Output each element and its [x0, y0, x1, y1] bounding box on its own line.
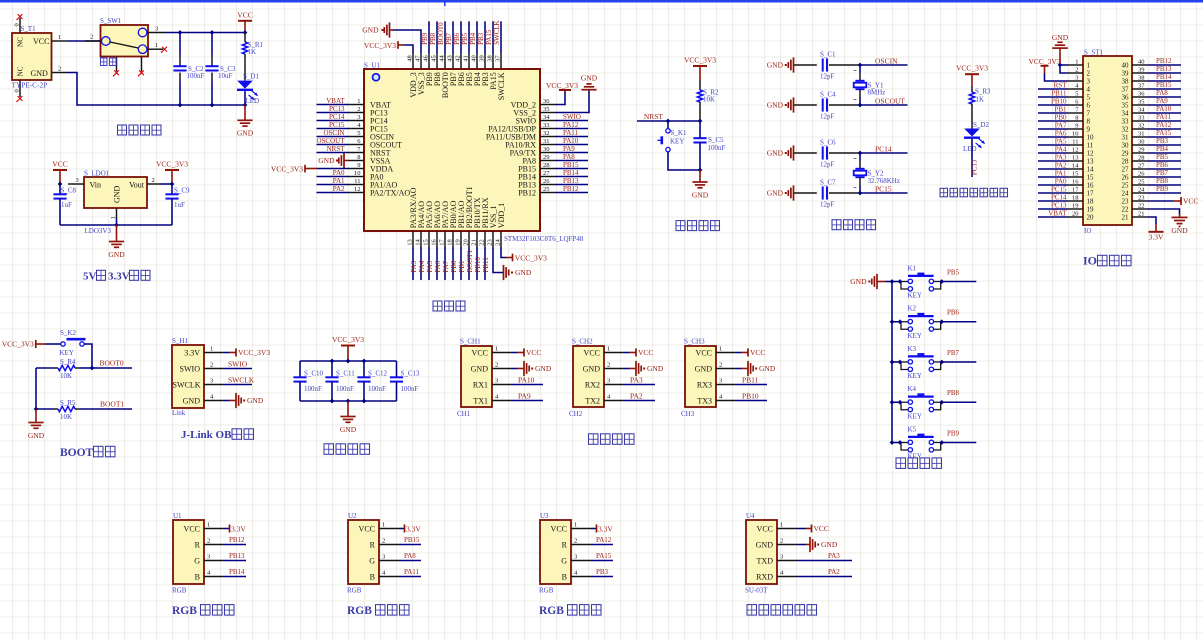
- svg-text:PB12: PB12: [229, 536, 245, 544]
- svg-text:PA12: PA12: [563, 121, 579, 129]
- power flag VCC_3V3 reset: [684, 56, 716, 81]
- wires and net labels left of header: [1038, 81, 1068, 217]
- svg-text:39: 39: [1122, 70, 1130, 78]
- key K1: [890, 264, 944, 299]
- svg-text:LDO3V3: LDO3V3: [85, 227, 112, 235]
- svg-text:PB1: PB1: [458, 260, 466, 273]
- svg-text:39: 39: [478, 55, 485, 62]
- svg-text:33: 33: [1122, 118, 1130, 126]
- svg-text:15: 15: [1087, 174, 1095, 182]
- ground GND U4: [797, 537, 838, 552]
- svg-text:25: 25: [543, 186, 550, 193]
- svg-text:10K: 10K: [60, 372, 72, 380]
- svg-text:U2: U2: [348, 512, 357, 520]
- wire switch to VCC rail: [165, 32, 245, 34]
- capacitor S_C2 100nF: [173, 33, 204, 106]
- svg-text:PA5: PA5: [426, 260, 434, 272]
- svg-text:40: 40: [470, 55, 477, 62]
- wire PA3 net: [797, 552, 852, 561]
- svg-text:GND: GND: [695, 364, 713, 373]
- svg-text:RX3: RX3: [697, 380, 712, 389]
- capacitor S_C5 100nF: [693, 121, 725, 170]
- svg-text:25: 25: [1122, 182, 1130, 190]
- svg-text:8: 8: [1075, 115, 1078, 122]
- title crystal circuit: [832, 220, 876, 230]
- svg-text:PA0: PA0: [333, 169, 345, 177]
- title 5V to 3.3V circuit: [83, 270, 150, 282]
- title IO expansion port: [1083, 254, 1131, 268]
- svg-text:GND: GND: [515, 268, 532, 277]
- svg-text:22: 22: [1138, 203, 1145, 210]
- svg-text:PB0: PB0: [1054, 113, 1067, 121]
- svg-text:PA9: PA9: [1156, 97, 1168, 105]
- wire boot pulldown rail: [34, 368, 39, 411]
- svg-text:26: 26: [543, 178, 550, 185]
- svg-text:PA0: PA0: [1055, 177, 1067, 185]
- svg-text:20: 20: [462, 239, 469, 246]
- svg-text:PA7: PA7: [1055, 121, 1067, 129]
- svg-text:GND: GND: [183, 396, 201, 405]
- svg-text:S_C6: S_C6: [820, 139, 836, 147]
- capacitor S_C4 12pF: [767, 91, 860, 121]
- header S_H1 J-Link: [172, 337, 224, 417]
- svg-text:46: 46: [422, 55, 429, 62]
- wire PA8 net: [399, 552, 421, 561]
- svg-text:PA2: PA2: [333, 185, 345, 193]
- svg-text:1: 1: [780, 521, 783, 528]
- svg-text:S_K1: S_K1: [671, 129, 687, 137]
- svg-text:VCC_3V3: VCC_3V3: [956, 64, 988, 73]
- svg-text:33: 33: [1138, 115, 1145, 122]
- regulator S_LDO1 LDO3V3: [68, 169, 160, 235]
- svg-text:21: 21: [1122, 214, 1130, 222]
- svg-text:S_C10: S_C10: [304, 370, 324, 378]
- svg-text:3: 3: [155, 25, 158, 32]
- svg-text:PB4: PB4: [469, 32, 477, 45]
- svg-text:12pF: 12pF: [820, 201, 835, 209]
- svg-text:2: 2: [495, 361, 498, 368]
- capacitor S_C10 100nF: [293, 361, 323, 401]
- power flag 3.3V U2: [399, 524, 421, 533]
- svg-text:10K: 10K: [60, 413, 72, 421]
- svg-text:VCC: VCC: [472, 348, 488, 357]
- svg-text:RGB: RGB: [347, 605, 372, 617]
- crystal S_Y2 32.768KHz: [854, 153, 900, 193]
- wire PB8 net: [942, 389, 977, 402]
- svg-text:G: G: [369, 556, 375, 565]
- title module U1: [172, 605, 234, 618]
- svg-text:PB12: PB12: [1156, 57, 1172, 65]
- wire PA2 net: [624, 392, 655, 401]
- svg-text:B: B: [562, 572, 567, 581]
- svg-text:1: 1: [719, 345, 722, 352]
- svg-text:8: 8: [357, 154, 360, 161]
- svg-text:PB10: PB10: [1051, 97, 1067, 105]
- svg-text:PA7: PA7: [442, 260, 450, 272]
- svg-text:33: 33: [543, 122, 550, 129]
- svg-text:GND: GND: [767, 101, 784, 110]
- wires and net labels left of mcu: [316, 97, 348, 193]
- capacitor S_C1 12pF: [767, 51, 860, 81]
- power flag VCC_3V3 jlink: [224, 348, 270, 357]
- svg-text:R: R: [562, 540, 568, 549]
- svg-text:11: 11: [1087, 142, 1094, 150]
- svg-text:VCC: VCC: [584, 348, 600, 357]
- module U2 header: [347, 512, 399, 594]
- svg-text:PA11: PA11: [1156, 113, 1172, 121]
- svg-text:3.3V: 3.3V: [108, 271, 130, 283]
- svg-text:VCC_3V3: VCC_3V3: [238, 348, 270, 357]
- title module U2: [347, 605, 409, 618]
- svg-text:PC14: PC14: [329, 113, 345, 121]
- svg-text:PB3: PB3: [477, 32, 485, 45]
- svg-text:26: 26: [1122, 174, 1130, 182]
- svg-text:NRST: NRST: [327, 145, 346, 153]
- title power circuit: [118, 125, 162, 135]
- svg-text:PA15: PA15: [596, 552, 612, 560]
- svg-text:BOOT0: BOOT0: [100, 359, 124, 368]
- svg-text:K3: K3: [908, 345, 917, 353]
- title reset circuit: [676, 221, 720, 231]
- svg-text:14: 14: [1072, 163, 1079, 170]
- svg-text:PA11: PA11: [563, 129, 579, 137]
- power flag VCC U4: [797, 524, 829, 533]
- svg-text:RGB: RGB: [347, 586, 362, 594]
- svg-text:VBAT: VBAT: [326, 97, 345, 105]
- svg-text:12: 12: [1072, 147, 1079, 154]
- svg-text:VCC: VCC: [696, 348, 712, 357]
- svg-text:16: 16: [430, 239, 437, 246]
- svg-text:VCC: VCC: [1183, 197, 1198, 206]
- title module U4: [747, 605, 817, 616]
- svg-text:PB14: PB14: [563, 169, 579, 177]
- svg-text:GND: GND: [340, 425, 357, 434]
- svg-text:B: B: [195, 572, 200, 581]
- power flag VCC_3V3 at VDD_1: [501, 247, 547, 262]
- svg-text:30: 30: [1138, 139, 1145, 146]
- svg-text:PB14: PB14: [229, 568, 245, 576]
- svg-text:3.3V: 3.3V: [598, 524, 613, 533]
- svg-text:37: 37: [1122, 86, 1130, 94]
- title J-Link OB interface: [181, 429, 254, 441]
- power flag VCC_3V3 at LDO output: [156, 160, 188, 185]
- wires and net labels right of mcu: [556, 113, 588, 193]
- svg-text:35: 35: [1122, 102, 1130, 110]
- svg-text:SWIO: SWIO: [180, 364, 201, 373]
- svg-text:3.3V: 3.3V: [184, 348, 200, 357]
- svg-text:PB9: PB9: [947, 429, 960, 437]
- svg-text:16: 16: [1072, 179, 1079, 186]
- svg-text:29: 29: [1138, 147, 1145, 154]
- svg-text:2: 2: [382, 537, 385, 544]
- svg-text:3: 3: [574, 553, 577, 560]
- svg-text:GND: GND: [1052, 33, 1069, 42]
- power flag VCC_3V3 boot: [2, 340, 45, 349]
- svg-text:3: 3: [357, 114, 360, 121]
- svg-text:S_CH3: S_CH3: [684, 337, 705, 345]
- power flag VCC at LDO input: [52, 160, 67, 185]
- svg-text:K1: K1: [908, 264, 917, 272]
- svg-text:SWIO: SWIO: [563, 113, 581, 121]
- svg-text:PB6: PB6: [947, 309, 960, 317]
- wire PA9 net: [512, 392, 543, 401]
- svg-text:U3: U3: [540, 512, 549, 520]
- svg-text:GND: GND: [692, 190, 709, 199]
- svg-text:20: 20: [1072, 211, 1079, 218]
- resistor S_R4 10K: [36, 358, 92, 380]
- svg-text:IO: IO: [1084, 227, 1091, 235]
- svg-text:KEY: KEY: [908, 412, 922, 420]
- svg-text:3: 3: [210, 377, 213, 384]
- svg-text:OSCOUT: OSCOUT: [875, 96, 905, 105]
- svg-text:VCC: VCC: [52, 160, 67, 169]
- svg-text:KEY: KEY: [908, 292, 922, 300]
- svg-text:PA2: PA2: [1055, 161, 1067, 169]
- wire T1 GND to bottom rail: [67, 73, 245, 106]
- svg-text:100nF: 100nF: [187, 72, 205, 80]
- svg-text:BOOT1: BOOT1: [100, 400, 124, 409]
- svg-text:38: 38: [1122, 78, 1130, 86]
- svg-text:S_R5: S_R5: [60, 399, 76, 407]
- ground GND LDO: [108, 225, 125, 259]
- svg-text:PB13: PB13: [229, 552, 245, 560]
- wire PB13 net: [224, 552, 246, 561]
- svg-text:STM32F103C8T6_LQFP48: STM32F103C8T6_LQFP48: [504, 235, 584, 243]
- svg-text:BOOT1: BOOT1: [466, 250, 474, 273]
- svg-text:PB11: PB11: [482, 257, 490, 273]
- resistor S_R1 1K: [242, 33, 263, 81]
- power flag 3.3V U3: [591, 524, 613, 533]
- svg-text:3: 3: [76, 177, 79, 184]
- svg-text:25: 25: [1138, 179, 1145, 186]
- svg-text:S_SW1: S_SW1: [100, 17, 122, 25]
- LED S_D1: [237, 73, 259, 105]
- wire PA2 net: [797, 568, 852, 577]
- wire PA11 net: [399, 568, 421, 577]
- capacitor S_C3 10uF: [205, 33, 236, 106]
- svg-text:SWCLK: SWCLK: [173, 380, 201, 389]
- svg-text:PA10: PA10: [1156, 105, 1172, 113]
- svg-text:2: 2: [58, 65, 61, 72]
- svg-text:VCC_3V3: VCC_3V3: [684, 56, 716, 65]
- svg-text:SWCLK: SWCLK: [493, 20, 501, 45]
- svg-text:VCC_3V3: VCC_3V3: [364, 41, 396, 50]
- svg-text:PB8: PB8: [429, 32, 437, 45]
- svg-text:TX2: TX2: [585, 396, 600, 405]
- svg-text:VCC: VCC: [757, 524, 773, 533]
- svg-text:VCC_3V3: VCC_3V3: [332, 335, 364, 344]
- ground GND at VSS_1: [493, 247, 532, 280]
- power flag VCC_3V3 header: [1028, 57, 1068, 81]
- svg-text:47: 47: [414, 55, 421, 62]
- svg-text:PA3: PA3: [630, 376, 643, 385]
- wire PA3 net: [624, 376, 655, 385]
- ground GND S_CH3: [736, 361, 776, 376]
- svg-text:GND: GND: [821, 540, 838, 549]
- header S_ST1 IO: [1068, 49, 1148, 235]
- svg-text:PA8: PA8: [563, 153, 575, 161]
- power flag VCC: [237, 10, 252, 32]
- resistor S_R5 10K: [36, 399, 80, 421]
- svg-text:17: 17: [438, 239, 445, 246]
- svg-text:10: 10: [1087, 134, 1095, 142]
- svg-text:34: 34: [1138, 107, 1145, 114]
- svg-text:PA15: PA15: [485, 29, 493, 45]
- svg-text:S_H1: S_H1: [172, 337, 188, 345]
- svg-text:100nF: 100nF: [368, 385, 386, 393]
- svg-text:TX3: TX3: [697, 396, 712, 405]
- svg-text:PB6: PB6: [453, 32, 461, 45]
- svg-text:45: 45: [430, 55, 437, 62]
- svg-text:VCC: VCC: [33, 37, 49, 46]
- svg-text:11: 11: [1072, 139, 1078, 146]
- svg-text:13: 13: [1072, 155, 1079, 162]
- svg-text:U1: U1: [173, 512, 182, 520]
- wires and net labels above mcu: [421, 20, 501, 53]
- svg-text:TXD: TXD: [757, 556, 774, 565]
- wire PC15 net: [860, 184, 908, 193]
- svg-text:SWCLK: SWCLK: [228, 376, 255, 385]
- svg-text:2: 2: [1075, 67, 1078, 74]
- svg-text:5: 5: [1075, 91, 1078, 98]
- svg-text:2: 2: [1087, 70, 1091, 78]
- svg-text:SU-03T: SU-03T: [745, 586, 768, 594]
- wire PB5 net: [942, 268, 977, 281]
- svg-text:B: B: [370, 572, 375, 581]
- svg-text:GND: GND: [362, 26, 379, 35]
- svg-text:3.3V: 3.3V: [231, 524, 246, 533]
- svg-text:S_C4: S_C4: [820, 91, 836, 99]
- ground GND at VSS_2: [556, 73, 598, 112]
- svg-text:RGB: RGB: [172, 586, 187, 594]
- svg-text:31: 31: [1122, 134, 1130, 142]
- wires and net labels below mcu: [410, 247, 490, 280]
- svg-text:S_T1: S_T1: [21, 25, 37, 33]
- svg-text:1: 1: [207, 521, 210, 528]
- switch label kai-guan: [101, 58, 117, 66]
- wire filter rails: [300, 359, 397, 404]
- svg-text:12pF: 12pF: [820, 161, 835, 169]
- svg-text:NRST: NRST: [644, 112, 664, 121]
- svg-text:PA8: PA8: [1156, 89, 1168, 97]
- svg-text:1: 1: [1075, 59, 1078, 66]
- svg-text:PB5: PB5: [1156, 153, 1169, 161]
- svg-text:40: 40: [1122, 62, 1130, 70]
- svg-text:1K: 1K: [248, 48, 257, 56]
- key S_K1 reset button: [658, 121, 701, 170]
- svg-text:PA9: PA9: [563, 145, 575, 153]
- svg-text:10K: 10K: [703, 96, 715, 104]
- svg-text:29: 29: [543, 154, 550, 161]
- svg-text:S_D1: S_D1: [243, 73, 259, 81]
- svg-text:1K: 1K: [976, 95, 985, 103]
- svg-text:TYPE-C-2P: TYPE-C-2P: [12, 81, 48, 90]
- svg-text:PB14: PB14: [1156, 73, 1172, 81]
- svg-text:27: 27: [1138, 163, 1145, 170]
- mcu S_U1 STM32F103C8T6_LQFP48: [349, 53, 584, 247]
- crystal S_Y1 8MHz: [854, 65, 886, 105]
- svg-text:GND: GND: [767, 149, 784, 158]
- svg-text:21: 21: [470, 239, 477, 246]
- svg-text:PA5: PA5: [1055, 137, 1067, 145]
- svg-text:100nF: 100nF: [708, 144, 726, 152]
- svg-text:PB10: PB10: [474, 257, 482, 273]
- svg-text:VCC_3V3: VCC_3V3: [515, 253, 547, 262]
- svg-text:S_C1: S_C1: [820, 51, 836, 59]
- serial header S_CH1: [457, 337, 512, 418]
- svg-text:37: 37: [1138, 83, 1145, 90]
- svg-text:PA3: PA3: [828, 552, 840, 560]
- svg-text:PC13: PC13: [1051, 201, 1067, 209]
- svg-text:GND: GND: [756, 540, 774, 549]
- wire PB14 net: [224, 568, 246, 577]
- power flag VCC_3V3 indicator: [956, 64, 988, 86]
- svg-text:S_C9: S_C9: [174, 186, 190, 194]
- svg-text:PA12: PA12: [1156, 121, 1172, 129]
- junction nodes LDO: [58, 182, 175, 228]
- svg-text:PA9: PA9: [518, 392, 531, 401]
- title program running indicator: [940, 188, 1008, 197]
- wire PA15 net: [591, 552, 613, 561]
- svg-text:PC15: PC15: [1051, 185, 1067, 193]
- wire PB7 net: [942, 349, 977, 362]
- svg-text:VCC_3V3: VCC_3V3: [2, 340, 34, 349]
- title key circuit: [896, 458, 942, 469]
- resistor S_R3 1K: [969, 86, 991, 129]
- svg-text:GND: GND: [318, 156, 335, 165]
- key K4: [890, 385, 944, 420]
- svg-text:SWIO: SWIO: [228, 360, 248, 369]
- svg-text:13: 13: [406, 239, 413, 246]
- power flag 3.3V header: [1148, 217, 1164, 241]
- svg-text:34: 34: [543, 114, 550, 121]
- svg-text:VCC: VCC: [184, 524, 200, 533]
- wire PC14 net: [860, 144, 908, 153]
- svg-text:0: 0: [14, 89, 21, 92]
- svg-text:RX2: RX2: [585, 380, 600, 389]
- svg-text:RST: RST: [1054, 81, 1068, 89]
- capacitor S_C11 100nF: [325, 361, 355, 401]
- svg-text:13: 13: [1087, 158, 1095, 166]
- svg-text:7: 7: [1087, 110, 1091, 118]
- svg-text:S_CH1: S_CH1: [460, 337, 481, 345]
- svg-text:PA6: PA6: [434, 260, 442, 272]
- svg-text:PB6: PB6: [1156, 161, 1169, 169]
- svg-text:PB5: PB5: [461, 32, 469, 45]
- svg-text:RX1: RX1: [473, 380, 488, 389]
- svg-text:GND: GND: [850, 277, 867, 286]
- svg-text:9: 9: [1087, 126, 1091, 134]
- svg-text:PC14: PC14: [875, 144, 892, 153]
- svg-text:J-Link OB: J-Link OB: [181, 429, 232, 441]
- ground GND at VSSA: [318, 153, 348, 168]
- svg-text:PC15: PC15: [875, 184, 892, 193]
- svg-text:PB7: PB7: [947, 349, 960, 357]
- ground GND filter: [340, 401, 357, 434]
- svg-text:GND: GND: [113, 185, 122, 203]
- resistor S_R2 10K: [697, 80, 719, 121]
- svg-text:12: 12: [1087, 150, 1095, 158]
- module U1 header: [172, 512, 224, 594]
- svg-text:VCC: VCC: [551, 524, 567, 533]
- svg-text:11: 11: [354, 178, 360, 185]
- svg-text:VCC_3V3: VCC_3V3: [546, 81, 578, 90]
- svg-text:LED: LED: [963, 145, 977, 153]
- svg-text:S_D2: S_D2: [973, 121, 989, 129]
- svg-text:CH1: CH1: [457, 410, 471, 418]
- svg-text:34: 34: [1122, 110, 1130, 118]
- svg-text:19: 19: [454, 239, 461, 246]
